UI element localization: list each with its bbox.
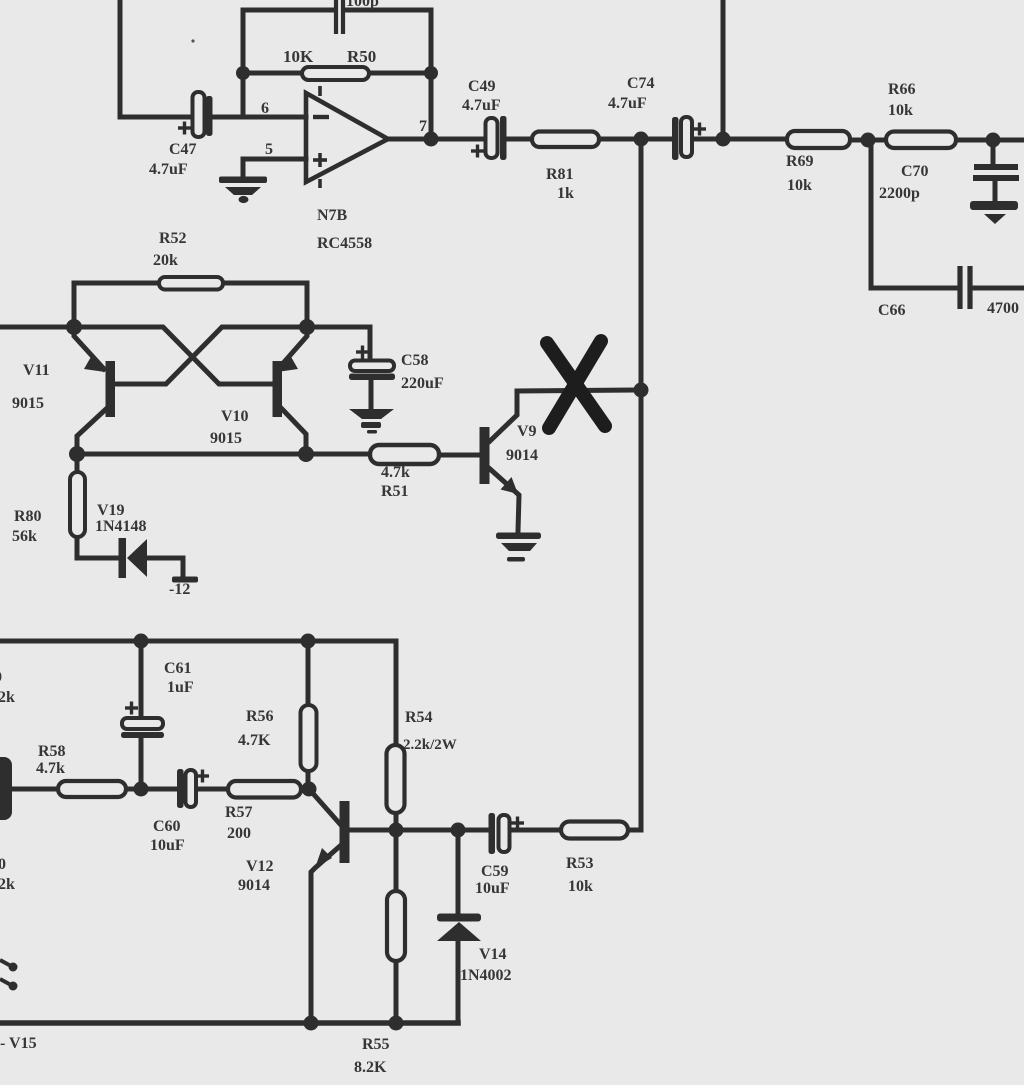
- svg-text:4.7uF: 4.7uF: [608, 95, 647, 112]
- op-amp plus input mark: [313, 153, 327, 167]
- wire long vertical node to bottom row: [639, 139, 644, 830]
- svg-text:20k: 20k: [153, 252, 178, 269]
- wire R58 to C60: [126, 787, 178, 792]
- svg-text:6: 6: [261, 100, 269, 117]
- svg-text:C58: C58: [401, 352, 429, 369]
- resistor R57 body: [228, 781, 301, 798]
- capacitor C49 negative plate: [500, 116, 507, 160]
- wire R54 bottom lead: [394, 813, 399, 830]
- svg-text:V12: V12: [246, 858, 274, 875]
- svg-text:R56: R56: [246, 708, 274, 725]
- wire R56 bottom lead: [306, 771, 311, 789]
- wire R66 to node B: [956, 138, 993, 143]
- wire C70 to ground: [993, 181, 998, 202]
- diode V14 triangle: [437, 922, 481, 941]
- partial capacitor plate at left edge: [0, 757, 12, 820]
- node junction B: [986, 133, 1001, 148]
- wire C59 to R53: [510, 828, 561, 833]
- resistor R53 body: [561, 822, 628, 839]
- svg-text:R54: R54: [405, 709, 433, 726]
- svg-text:R66: R66: [888, 81, 916, 98]
- transistor V12 emitter arrow: [315, 848, 332, 868]
- capacitor C74 negative plate: [672, 117, 679, 160]
- node junction flip-flop right: [299, 319, 315, 335]
- svg-text:C66: C66: [878, 302, 906, 319]
- wire V12 collector row: [350, 828, 489, 833]
- node junction flip-flop left: [66, 319, 82, 335]
- resistor R80 body: [70, 472, 85, 537]
- transistor V11 emitter arrow: [84, 355, 105, 372]
- wire node right of flip-flop to C58: [307, 327, 370, 361]
- diode V19 cathode bar: [119, 538, 127, 578]
- capacitor C47 plus sign: [178, 122, 191, 135]
- wire V9 emitter: [490, 469, 519, 531]
- wire bottom top rail: [0, 641, 396, 745]
- resistor R55 body: [387, 891, 405, 961]
- svg-text:9015: 9015: [12, 395, 44, 412]
- wire C58 to ground: [369, 380, 374, 409]
- wire input to flip-flop from left edge: [0, 325, 74, 330]
- wire V14 top lead: [456, 830, 461, 915]
- wire C60 to R57: [195, 787, 228, 792]
- svg-text:1uF: 1uF: [167, 679, 194, 696]
- diode V19 triangle: [127, 539, 147, 577]
- stray scan speck: [191, 39, 194, 42]
- transistor V10 base bar: [273, 361, 283, 417]
- wire op-amp noninverting input to ground: [243, 159, 306, 177]
- transistor V12 base bar: [340, 801, 350, 863]
- transistor V9 base bar: [480, 427, 490, 484]
- wire V10 emitter: [278, 327, 307, 369]
- capacitor 100p plates: [336, 0, 343, 34]
- capacitor C60 negative plate: [177, 769, 184, 808]
- op-amp power stub bottom: [318, 179, 322, 188]
- wire flip-flop bottom rail: [77, 452, 370, 457]
- node junction rail / C61: [134, 634, 149, 649]
- diode V14 cathode bar: [437, 914, 481, 922]
- wire R50 right lead: [369, 71, 431, 76]
- wire R50 left lead: [243, 71, 302, 76]
- wire V10 collector: [282, 409, 306, 454]
- wire R81 to node: [599, 137, 641, 142]
- svg-text:R69: R69: [786, 153, 814, 170]
- svg-text:4.7k: 4.7k: [36, 760, 65, 777]
- node junction crossed wire / long vertical: [634, 383, 649, 398]
- wire C66 to right edge: [973, 286, 1024, 291]
- ground below op-amp plus input: [219, 177, 267, 204]
- node junction C74 / top vertical: [716, 132, 731, 147]
- op-amp power stub top: [318, 86, 322, 96]
- svg-text:59: 59: [0, 669, 2, 686]
- node junction bottom rail / V12 emitter: [304, 1016, 319, 1031]
- svg-text:C49: C49: [468, 78, 496, 95]
- wire R52 right loop: [223, 283, 307, 327]
- wire cross-coupling right node to V11 base: [115, 327, 307, 384]
- svg-text:N7B: N7B: [317, 207, 348, 224]
- op-amp N7B triangle: [306, 93, 388, 182]
- svg-text:5: 5: [265, 141, 273, 158]
- svg-text:4.7uF: 4.7uF: [149, 161, 188, 178]
- svg-text:C59: C59: [481, 863, 509, 880]
- wire top-left vertical into C47: [120, 0, 192, 117]
- capacitor C61 plus sign: [125, 702, 138, 715]
- wire V12 emitter to bottom rail: [311, 846, 340, 1023]
- svg-text:V14: V14: [479, 946, 507, 963]
- resistor R58 body: [58, 781, 126, 797]
- capacitor C61 negative plate: [121, 732, 164, 738]
- wire node to R69: [723, 137, 787, 142]
- crossed-out mark X over V9 collector wire: [547, 341, 605, 428]
- svg-text:R53: R53: [566, 855, 594, 872]
- wire V12 base lead: [309, 789, 340, 824]
- wire node B down to C70: [991, 140, 996, 164]
- wire V19 to -12 terminal: [147, 558, 183, 577]
- capacitor C59 plus sign: [511, 817, 524, 830]
- svg-text:10k: 10k: [568, 878, 593, 895]
- svg-text:10uF: 10uF: [475, 880, 510, 897]
- svg-text:1N4148: 1N4148: [95, 518, 147, 535]
- node junction rail right: [298, 446, 314, 462]
- svg-text:56k: 56k: [12, 528, 37, 545]
- node junction feedback-left / R50: [236, 66, 250, 80]
- capacitor C58 positive plate: [350, 361, 394, 372]
- svg-text:R52: R52: [159, 230, 187, 247]
- svg-text:V19: V19: [97, 502, 125, 519]
- wire R80 bottom to diode V19: [77, 537, 118, 558]
- svg-text:R51: R51: [381, 483, 409, 500]
- svg-text:4.7K: 4.7K: [238, 732, 271, 749]
- resistor R81 body: [532, 132, 599, 148]
- svg-text:R57: R57: [225, 804, 253, 821]
- svg-text:R55: R55: [362, 1036, 390, 1053]
- node junction rail / R56: [301, 634, 316, 649]
- svg-text:1k: 1k: [557, 185, 574, 202]
- svg-text:2k: 2k: [0, 876, 15, 893]
- wire R53 to long vertical: [628, 828, 641, 833]
- wire R54 node to R55: [394, 830, 399, 891]
- wire R52 left loop: [74, 283, 159, 327]
- capacitor C60 plus sign: [196, 770, 209, 783]
- node junction bottom rail / R55: [389, 1016, 404, 1031]
- wire C61 top lead: [139, 641, 144, 719]
- capacitor C47 negative plate: [206, 96, 213, 136]
- wire feedback right vertical: [429, 10, 434, 139]
- wire top vertical at C74 node: [721, 0, 726, 139]
- svg-text:4.7k: 4.7k: [381, 464, 410, 481]
- node junction collector row / R54: [389, 823, 404, 838]
- wire C61 bottom lead: [139, 737, 144, 789]
- wire bottom ground rail: [0, 1020, 458, 1026]
- svg-text:7: 7: [419, 118, 427, 135]
- ground below C58: [349, 409, 394, 434]
- svg-text:C60: C60: [153, 818, 181, 835]
- wire node to C74: [641, 137, 672, 142]
- node junction feedback-right / R50: [424, 66, 438, 80]
- resistor R56 body: [301, 705, 317, 771]
- op-amp minus input mark: [313, 115, 329, 119]
- svg-text:C47: C47: [169, 141, 197, 158]
- svg-text:100p: 100p: [346, 0, 379, 10]
- svg-text:-12: -12: [169, 581, 190, 598]
- resistor R51 body: [370, 445, 439, 464]
- svg-text:2.2k/2W: 2.2k/2W: [403, 737, 457, 753]
- svg-text:2200p: 2200p: [879, 185, 920, 202]
- capacitor C60 positive plate: [186, 770, 197, 807]
- svg-text:10k: 10k: [787, 177, 812, 194]
- capacitor C74 plus sign: [693, 123, 706, 136]
- svg-text:R80: R80: [14, 508, 42, 525]
- wire C49 to R81: [507, 137, 532, 142]
- svg-text:4700: 4700: [987, 300, 1019, 317]
- svg-text:- V15: - V15: [0, 1035, 37, 1052]
- wire op-amp output: [388, 137, 486, 142]
- wire node A down and across to C66: [871, 140, 957, 288]
- wire feedback left vertical: [241, 10, 246, 117]
- svg-text:C74: C74: [627, 75, 655, 92]
- wire V11 collector: [77, 409, 106, 454]
- node junction collector row / V14: [451, 823, 466, 838]
- svg-text:C70: C70: [901, 163, 929, 180]
- svg-text:9015: 9015: [210, 430, 242, 447]
- svg-text:220uF: 220uF: [401, 375, 444, 392]
- wire C47 to op-amp inverting input: [212, 115, 306, 120]
- node junction op-amp output / feedback: [424, 132, 439, 147]
- resistor R50 body: [302, 67, 369, 80]
- wire R80 top lead: [75, 454, 80, 473]
- wire cross-coupling left node to V10 base: [74, 327, 273, 384]
- svg-text:9014: 9014: [506, 447, 538, 464]
- svg-text:C61: C61: [164, 660, 192, 677]
- svg-text:V9: V9: [517, 423, 537, 440]
- wire C74 to node: [691, 137, 723, 142]
- capacitor C70 plates: [973, 167, 1019, 178]
- resistor R69 body: [787, 131, 850, 148]
- capacitor C74 positive plate: [681, 117, 692, 157]
- capacitor C49 plus sign: [471, 145, 484, 158]
- wire R57 to node: [301, 787, 309, 792]
- transistor V10 emitter arrow: [277, 355, 298, 372]
- wire V9 collector to crossed node: [490, 390, 641, 441]
- svg-text:R58: R58: [38, 743, 66, 760]
- wire R56 top lead: [306, 641, 311, 706]
- svg-text:R50: R50: [347, 47, 376, 66]
- node junction rail left: [69, 446, 85, 462]
- svg-text:R81: R81: [546, 166, 574, 183]
- capacitor C61 positive plate: [122, 718, 163, 729]
- capacitor C58 negative plate: [349, 374, 395, 381]
- wire left edge cap to R58: [10, 787, 58, 792]
- svg-text:200: 200: [227, 825, 251, 842]
- svg-text:10uF: 10uF: [150, 837, 185, 854]
- svg-text:10k: 10k: [888, 102, 913, 119]
- svg-text:V11: V11: [23, 362, 50, 379]
- node junction R81 / long vertical: [634, 132, 649, 147]
- capacitor C59 positive plate: [499, 815, 510, 852]
- svg-text:V10: V10: [221, 408, 249, 425]
- wire R69 to node A: [850, 138, 886, 143]
- ground below C70: [970, 201, 1018, 224]
- svg-text:4.7uF: 4.7uF: [462, 97, 501, 114]
- transistor V9 emitter arrow: [501, 477, 519, 494]
- capacitor C58 plus sign: [356, 346, 369, 359]
- capacitor C59 negative plate: [489, 813, 496, 854]
- wire R51 to V9 base: [439, 453, 480, 458]
- capacitor C47 positive plate: [193, 92, 205, 137]
- wire feedback top loop right of C: [344, 8, 431, 13]
- switch fragment at left edge: [0, 960, 11, 985]
- capacitor C49 positive plate: [486, 118, 498, 158]
- capacitor C66 plates: [960, 266, 970, 309]
- svg-text:RC4558: RC4558: [317, 235, 372, 252]
- svg-text:1N4002: 1N4002: [460, 967, 512, 984]
- svg-text:10K: 10K: [283, 47, 314, 66]
- resistor R52 body: [159, 277, 223, 290]
- wire V11 emitter: [74, 327, 104, 369]
- node junction C61 / R58 row: [134, 782, 149, 797]
- resistor R66 body: [886, 132, 956, 149]
- resistor R54 body: [387, 745, 405, 813]
- wire V14 bottom lead: [456, 941, 461, 1023]
- transistor V11 base bar: [106, 361, 116, 417]
- svg-text:9014: 9014: [238, 877, 270, 894]
- terminal -12 bar: [172, 577, 198, 583]
- wire feedback top loop left of C: [243, 8, 334, 13]
- svg-text:2k: 2k: [0, 689, 15, 706]
- node junction R57 / V12 base: [302, 782, 317, 797]
- svg-text:60: 60: [0, 856, 6, 873]
- ground below V9 emitter: [496, 533, 541, 562]
- node junction A: [861, 133, 876, 148]
- svg-text:8.2K: 8.2K: [354, 1059, 387, 1076]
- wire R55 bottom lead: [394, 961, 399, 1023]
- wire node B to right edge: [993, 138, 1024, 143]
